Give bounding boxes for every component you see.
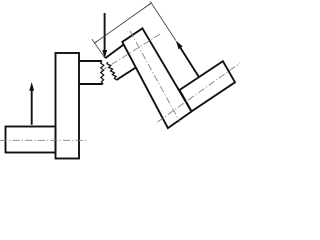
right stub top edge [105, 45, 124, 59]
right shaft centerline (dash-dot) [158, 63, 241, 122]
left stub top edge [79, 60, 102, 62]
right flange centerline (dash-dot) [130, 31, 180, 122]
force arrow up-left (right shaft) [176, 41, 199, 78]
right stub break zigzag [107, 62, 117, 80]
dimension arrowhead at P1 [94, 41, 97, 44]
right shaft rectangle (inclined) [180, 61, 236, 111]
right stub centerline (dash-dot) [101, 33, 162, 71]
dimension line A [94, 3, 151, 43]
left stub bottom edge [79, 83, 103, 85]
right flange (inclined block) [122, 28, 191, 128]
dimension extension line C (to right arrow tip) [150, 1, 176, 40]
dimension extension line B (from joint arrow tip) [92, 39, 105, 58]
left stub break zigzag [101, 61, 104, 84]
left centerline (shaft axis, dash-dot) [0, 139, 87, 141]
left flange rectangle [56, 53, 80, 159]
force arrow down (at joint) [102, 13, 107, 59]
force arrow up (left shaft) [29, 82, 34, 125]
right stub bottom edge [117, 68, 136, 81]
dimension arrowhead at V [148, 3, 151, 6]
left shaft rectangle [6, 127, 56, 153]
